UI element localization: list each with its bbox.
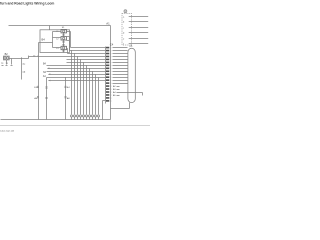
chain connector ticks c (63, 43, 65, 46)
svg-text:C4: C4 (110, 43, 114, 47)
wire S2 output a (67, 37, 70, 51)
loom feed wires (113, 48, 128, 84)
hazard switch S2 body (61, 37, 67, 40)
ring terminal 7 (88, 115, 90, 117)
staircase tap vertical 2 (74, 54, 76, 115)
harness boundary A1 top wire (9, 25, 111, 27)
wire feed from top (49, 26, 51, 30)
main connector strip left rail (105, 47, 107, 104)
internal wire vertical (52, 32, 54, 48)
staircase tap vertical 5 (83, 63, 85, 115)
instrument wire b (129, 21, 149, 23)
arrow on feed wire (33, 55, 35, 57)
pin row wire 7 with arrow (48, 68, 106, 70)
jog corner dots (28, 58, 29, 59)
staircase tap vertical 4 (80, 60, 82, 115)
pin row wire 4 (67, 59, 106, 61)
cable loom oval (128, 48, 135, 102)
staircase tap vertical 10 (98, 78, 100, 115)
instrument wire a (129, 16, 149, 18)
instrument wire c (129, 27, 149, 29)
internal wire to S3 (53, 47, 62, 49)
dashed instrument box D1 (122, 14, 132, 46)
internal wire to S1 (53, 31, 62, 33)
instrument wire e (129, 38, 149, 40)
flasher terminal stub a (6, 60, 8, 65)
chain connector ticks a (63, 33, 65, 36)
indicator switch S1 body (61, 30, 67, 33)
flasher coil circle 2 (7, 57, 9, 59)
ring terminal 8 (91, 115, 93, 117)
ring terminal 9 (94, 115, 96, 117)
footer rule (0, 125, 150, 127)
svg-text:A1: A1 (106, 21, 110, 25)
switch S3 circle (63, 47, 65, 49)
pin row wire 5 (67, 62, 106, 64)
flasher terminal ticks (2, 65, 13, 67)
loom bottom wire (111, 103, 130, 109)
ring terminal 4 (79, 115, 81, 117)
earth wire V1 (39, 43, 53, 120)
svg-text:Turn and Road Lights Wiring Lo: Turn and Road Lights Wiring Loom (0, 2, 54, 6)
staircase tap vertical 6 (86, 66, 88, 115)
label D1 circled (124, 10, 127, 13)
wire S3 output (67, 49, 68, 54)
ring terminal 5 (82, 115, 84, 117)
svg-text:(4): (4) (23, 72, 26, 74)
pin row wire 2 (68, 53, 106, 55)
ring terminal 3 (76, 115, 78, 117)
harness boundary right edge (110, 26, 112, 120)
instrument wire f (129, 43, 149, 45)
svg-text:B4: B4 (42, 37, 46, 41)
staircase tap vertical 3 (77, 57, 79, 115)
wire S1 output (67, 32, 71, 48)
ring terminal 10 (97, 115, 99, 117)
staircase tap vertical 7 (89, 69, 91, 115)
pin row wire 0 (71, 47, 106, 49)
switch S3 body (61, 46, 67, 49)
pin row 18 wire to bus (103, 101, 106, 120)
junction node S2b (69, 40, 70, 41)
chain connector ticks b (63, 40, 65, 43)
internal wire to S2 (53, 37, 62, 39)
pin row wire 11 (49, 80, 106, 82)
junction node V1 top (37, 55, 38, 56)
staircase tap vertical 1 (71, 51, 73, 115)
junction dot V3 top (65, 77, 66, 78)
connector ticks V3 upper (65, 86, 67, 87)
drop wire x21.5 (21, 59, 23, 80)
flasher terminal stub b (11, 59, 13, 65)
connector ticks V1 lower (37, 97, 39, 98)
switch S1 circle (63, 30, 65, 32)
ring terminal 2 (73, 115, 75, 117)
ring terminal 1 (70, 115, 72, 117)
pin row wire 8 with label (47, 71, 106, 73)
connector ticks V2 lower (46, 97, 48, 98)
staircase tap vertical 9 (95, 75, 97, 115)
svg-text:Lotus Cars Ltd: Lotus Cars Ltd (0, 129, 14, 132)
staircase tap vertical 8 (92, 72, 94, 115)
ground bus wire (1, 119, 111, 121)
switch assembly box B4 (40, 30, 70, 53)
junction node x21.5 (21, 57, 22, 58)
switch chain link 1 (63, 33, 65, 37)
pin row wire 1 (70, 50, 106, 52)
pin row wire 9 with arrow (49, 74, 106, 76)
chain connector ticks d (63, 49, 65, 52)
earth wire V2 (46, 78, 48, 120)
connector ticks V3 lower (65, 97, 67, 98)
staircase junction dots (71, 50, 99, 78)
instrument pin labels (123, 16, 125, 45)
ring to bus stubs (72, 117, 99, 120)
connector ticks V1 upper (37, 86, 39, 87)
ring terminal 6 (85, 115, 87, 117)
pin row wire 6 with label (47, 65, 106, 67)
svg-text:(L): (L) (23, 64, 26, 66)
pin hooks (110, 47, 112, 102)
pin row wire 10 (47, 77, 106, 79)
connector pins (106, 47, 109, 102)
earth wire V3 (65, 78, 67, 120)
flasher output wire (10, 57, 106, 59)
connector ticks V2 upper (46, 87, 48, 88)
switch S2 circle (63, 37, 65, 39)
instrument wire d (129, 32, 149, 34)
switch chain link 2 (63, 40, 65, 46)
wire S2 output b (67, 40, 70, 42)
flasher unit B2 box (3, 56, 9, 60)
switch chain link 3 (63, 50, 65, 53)
flasher coil circle 1 (4, 57, 6, 59)
